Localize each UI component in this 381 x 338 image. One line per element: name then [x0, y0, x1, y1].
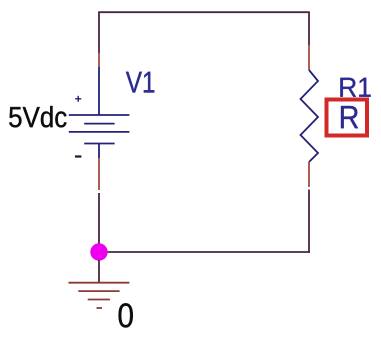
wire right upper: [308, 12, 310, 45]
wire left lower red segment: [98, 158, 100, 190]
wire left upper: [98, 12, 100, 53]
V1 minus sign: [75, 155, 81, 157]
wire left lower: [98, 193, 100, 252]
selection box around R value: [327, 100, 368, 136]
V1 plus sign: [75, 96, 81, 102]
label R (value): [341, 106, 358, 128]
label 5Vdc: [9, 106, 66, 127]
label R1: [340, 78, 370, 97]
R1 pin 1 red segment: [308, 45, 310, 70]
label V1: [126, 72, 154, 93]
ground stub: [98, 260, 100, 283]
junction node dot: [90, 243, 107, 260]
wire left upper red segment: [98, 53, 100, 67]
resistor R1 zigzag: [301, 70, 319, 162]
ground bar 2: [78, 290, 119, 292]
ground bar 1: [69, 282, 130, 284]
wire bottom: [99, 251, 310, 253]
V1 pin 2 (-): [98, 144, 100, 159]
V1 battery plate 1 (long): [69, 114, 130, 116]
V1 battery plate 3 (long): [69, 131, 130, 133]
ground bar 4: [97, 307, 103, 309]
V1 battery plate 2 (short): [84, 123, 114, 125]
V1 pin 1 (+): [98, 67, 100, 115]
wire top: [98, 11, 310, 13]
ground label 0: [119, 303, 133, 327]
wire right lower: [308, 190, 310, 253]
R1 pin 2 red segment: [308, 162, 310, 187]
ground bar 3: [88, 299, 110, 301]
V1 battery plate 4 (short): [84, 143, 114, 145]
